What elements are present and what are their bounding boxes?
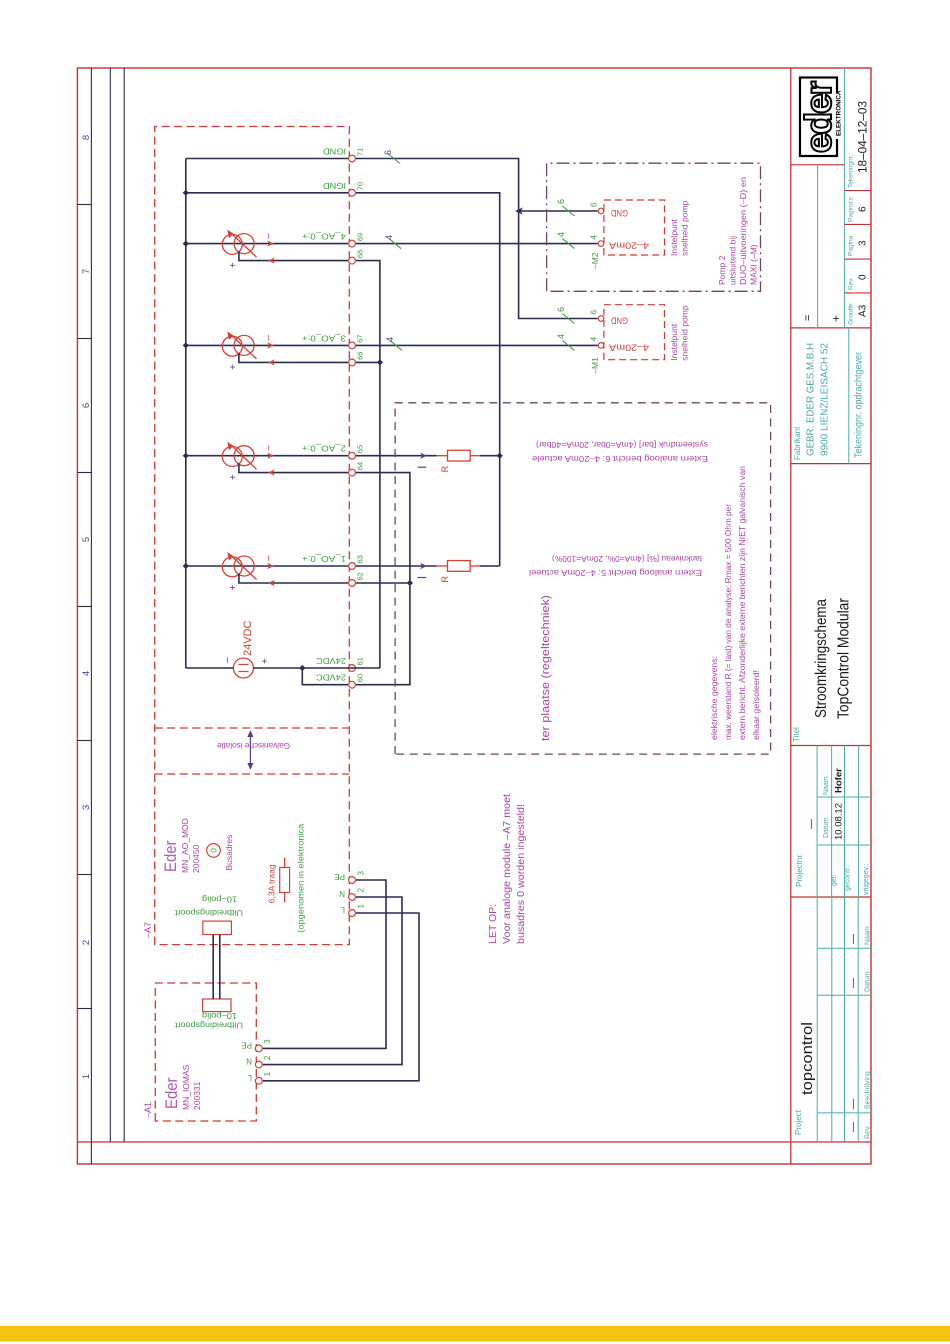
frame column band line	[90, 68, 92, 1164]
svg-text:3: 3	[357, 871, 366, 876]
resistor R1	[436, 565, 448, 567]
wire source minus to IGND bus	[186, 667, 234, 669]
stub -M1 GND	[601, 318, 604, 320]
measuring loop wire with resistor R1	[356, 565, 437, 567]
svg-text:PE: PE	[334, 872, 345, 881]
svg-text:9900 LIENZ/LEISACH 52: 9900 LIENZ/LEISACH 52	[819, 343, 831, 456]
galvanic isolation divider right	[155, 727, 350, 729]
svg-text:Project: Project	[794, 1109, 803, 1135]
svg-text:6: 6	[556, 307, 566, 312]
page-cells top line	[843, 68, 845, 328]
pump connector box -M2	[604, 200, 665, 255]
regeltechniek dashed box	[395, 403, 770, 754]
svg-text:Pomp 2: Pomp 2	[717, 255, 727, 285]
wire PE: -A1:3 to -A7:3	[263, 880, 386, 1048]
svg-text:71: 71	[356, 148, 365, 156]
svg-text:Pagina's: Pagina's	[848, 197, 855, 222]
svg-text:–: –	[263, 445, 274, 451]
frame inner line 1	[109, 68, 111, 1142]
wire gauge slash 71	[388, 154, 400, 164]
svg-text:—: —	[806, 819, 817, 829]
svg-text:Projectnr.: Projectnr.	[795, 853, 804, 887]
svg-text:+: +	[228, 474, 239, 480]
svg-text:systeemdruk [bar] (4mA=0bar, 2: systeemdruk [bar] (4mA=0bar, 20mA=40bar)	[536, 440, 708, 450]
page cell divider x1153.4	[844, 190, 871, 192]
wire bus to terminal 71	[186, 158, 348, 160]
svg-text:4–20mA: 4–20mA	[609, 342, 649, 352]
svg-text:4: 4	[385, 337, 395, 342]
svg-text:Fabrikant: Fabrikant	[793, 426, 802, 460]
junction net A / 66	[377, 359, 383, 365]
svg-text:+: +	[260, 658, 271, 664]
bus junction	[183, 563, 189, 569]
terminal -M1:4 (4-20mA)	[598, 343, 604, 349]
drawing frame outer border	[77, 68, 871, 1164]
terminal -A7:65	[349, 452, 356, 459]
pomp 2 dash-dot box	[547, 163, 761, 291]
controlled current source Q4 (AO channel 4)	[186, 243, 348, 245]
svg-text:GND: GND	[611, 316, 628, 326]
svg-text:PE: PE	[241, 1040, 252, 1049]
svg-text:—: —	[848, 978, 859, 988]
connector X1 on -A7 (uitbreidingspoort)	[203, 921, 232, 934]
wire terminal 66 to net A	[356, 361, 380, 363]
svg-text:10–polig: 10–polig	[202, 895, 237, 904]
svg-text:R: R	[440, 465, 450, 472]
svg-text:gecontr.:: gecontr.:	[845, 864, 852, 891]
svg-text:=: =	[802, 315, 814, 321]
galvanic isolation divider left	[155, 773, 350, 775]
terminal -A1:3 (PE)	[255, 1045, 262, 1052]
svg-text:busadres 0 worden ingesteld!: busadres 0 worden ingesteld!	[515, 804, 527, 944]
svg-text:Pagina: Pagina	[848, 235, 855, 256]
title block divider x598	[791, 745, 871, 747]
svg-text:R: R	[440, 576, 450, 583]
svg-text:24VDC: 24VDC	[316, 656, 346, 666]
fabrikant divider	[848, 328, 850, 464]
svg-text:DUO–uitvoeringen (–D) en: DUO–uitvoeringen (–D) en	[738, 177, 748, 285]
wire L: -A1:1 to -A7:1	[263, 913, 419, 1081]
frame left filing margin line	[77, 1141, 871, 1143]
svg-text:–A1: –A1	[143, 1102, 153, 1118]
svg-text:10–polig: 10–polig	[202, 1011, 237, 1020]
svg-text:Extern analoog bericht 6: 4–20: Extern analoog bericht 6: 4–20mA actuele	[532, 454, 708, 464]
wire bus to terminal 70	[186, 192, 348, 194]
junction 24VDC jumper	[299, 665, 305, 671]
svg-text:extern bericht. Afzonderlijke: extern bericht. Afzonderlijke externe be…	[738, 466, 747, 740]
+24V net B rail (60-62-64)	[356, 473, 410, 685]
IGND bus inside -A7	[185, 159, 187, 669]
wire gauge slash 69	[389, 239, 401, 249]
svg-text:+: +	[228, 262, 239, 268]
wire N: -A1:2 to -A7:2	[263, 897, 402, 1065]
source plus return wire to terminal 66	[239, 353, 348, 363]
wire terminal 62 to net B	[356, 582, 410, 584]
svg-text:LET OP:: LET OP:	[487, 904, 499, 944]
svg-text:0: 0	[858, 274, 869, 280]
title block divider x447	[791, 896, 871, 898]
terminal -M1:6 (GND)	[598, 316, 604, 322]
bus junction	[183, 240, 189, 246]
svg-text:elektrische gegevens:: elektrische gegevens:	[710, 656, 719, 740]
svg-text:2: 2	[357, 888, 366, 893]
svg-text:1: 1	[263, 1071, 272, 1076]
svg-text:65: 65	[356, 445, 365, 453]
svg-text:IGND: IGND	[323, 181, 346, 191]
svg-text:4: 4	[81, 671, 92, 676]
svg-text:4: 4	[556, 334, 566, 339]
24VDC source G1	[233, 658, 253, 678]
terminal -A7:67	[349, 342, 356, 349]
=/+ divider	[817, 165, 819, 328]
svg-text:ELEKTRONICA: ELEKTRONICA	[836, 90, 843, 136]
source plus return wire to terminal 64	[239, 463, 348, 472]
svg-text:TopControl Modular: TopControl Modular	[836, 598, 853, 719]
source minus output wire to terminal 63	[267, 563, 274, 569]
GND branch to -M2	[519, 210, 598, 212]
svg-text:Eder: Eder	[161, 840, 180, 872]
svg-text:A3: A3	[858, 304, 869, 317]
svg-text:–M1: –M1	[590, 357, 600, 374]
page cell divider x1084.9	[844, 258, 871, 260]
svg-text:(opgenomen in elektronica: (opgenomen in elektronica	[296, 823, 306, 932]
terminal -A7:60	[349, 681, 356, 688]
svg-text:Hofer: Hofer	[834, 768, 845, 793]
bus junction	[183, 190, 189, 196]
svg-text:—: —	[848, 1099, 859, 1109]
source minus output wire to terminal 67	[267, 342, 274, 348]
terminal -M2:4 (4-20mA)	[598, 241, 604, 247]
svg-text:Tekeningnr.:: Tekeningnr.:	[848, 153, 855, 188]
svg-text:MN_AO_MOD: MN_AO_MOD	[180, 818, 190, 873]
terminal -A7:69	[349, 240, 356, 247]
svg-text:Extern analoog bericht 5: 4–20: Extern analoog bericht 5: 4–20mA actueel	[529, 568, 702, 578]
svg-text:Naam: Naam	[865, 926, 872, 945]
terminal -A7:71	[349, 155, 356, 162]
svg-text:6: 6	[590, 310, 599, 315]
svg-text:topcontrol: topcontrol	[799, 1022, 816, 1095]
title block top line	[790, 68, 792, 1164]
page cell divider x1119.6	[844, 223, 871, 225]
svg-text:–: –	[263, 334, 274, 340]
title block divider x880	[791, 463, 871, 465]
terminal -A7:1 (L)	[349, 910, 356, 917]
svg-text:0: 0	[210, 848, 219, 853]
svg-text:1: 1	[81, 1074, 92, 1079]
svg-text:66: 66	[356, 352, 365, 360]
svg-text:eder: eder	[798, 81, 839, 153]
svg-text:6,3A traag: 6,3A traag	[267, 864, 277, 903]
svg-text:N: N	[246, 1057, 252, 1066]
source plus return wire to terminal 62	[239, 574, 348, 584]
controlled current source Q2 (AO channel 2)	[186, 455, 348, 457]
svg-text:3: 3	[858, 240, 869, 246]
svg-text:6: 6	[556, 199, 566, 204]
svg-text:uitsluitend bij: uitsluitend bij	[728, 236, 738, 285]
stub -M1 4-20mA	[601, 344, 604, 346]
+24V net A rail (61-66-68)	[356, 261, 380, 668]
svg-text:4: 4	[556, 232, 566, 237]
svg-text:8: 8	[81, 135, 92, 140]
svg-text:MAXI (–M): MAXI (–M)	[749, 244, 759, 285]
frame inner line 2	[123, 68, 125, 1142]
svg-text:63: 63	[356, 555, 365, 563]
terminal -A7:70	[349, 189, 356, 196]
svg-text:200450: 200450	[191, 844, 201, 873]
terminal -A7:63	[349, 563, 356, 570]
svg-text:6: 6	[383, 150, 393, 155]
source plus return wire to terminal 68	[239, 251, 348, 261]
svg-text:+: +	[228, 585, 239, 591]
svg-text:get:: get:	[831, 874, 838, 886]
wire gauge slash 67	[390, 340, 402, 350]
svg-text:snelheid pomp: snelheid pomp	[680, 305, 690, 361]
terminal -A7:61	[349, 665, 356, 672]
connector X1 on -A1 (uitbreidingspoort)	[203, 999, 231, 1012]
svg-text:Uitbreidingspoort: Uitbreidingspoort	[174, 908, 243, 917]
svg-text:Uitbreidingspoort: Uitbreidingspoort	[174, 1021, 243, 1030]
expansion bus cable between -A1 and -A7	[212, 935, 214, 1000]
module -A7 box	[155, 127, 350, 945]
svg-text:6: 6	[81, 403, 92, 408]
terminal -M2:6 (GND)	[598, 208, 604, 214]
svg-text:GND: GND	[611, 208, 628, 218]
terminal -A1:2 (N)	[255, 1061, 262, 1068]
bus junction	[183, 453, 189, 459]
svg-text:GEBR. EDER GES.M.B.H: GEBR. EDER GES.M.B.H	[805, 343, 817, 456]
svg-text:1: 1	[357, 904, 366, 909]
terminal -A7:2 (N)	[349, 894, 356, 901]
svg-text:–: –	[263, 233, 274, 239]
svg-text:ter plaatse (regeltechniek): ter plaatse (regeltechniek)	[540, 595, 552, 741]
svg-text:Grootte: Grootte	[848, 303, 855, 325]
yellow page footer bar	[0, 1326, 950, 1342]
svg-text:18–04–12–03: 18–04–12–03	[856, 101, 870, 173]
eder elektronica logo	[800, 78, 837, 157]
svg-text:Tekeningnr. opdrachtgever: Tekeningnr. opdrachtgever	[854, 351, 865, 458]
GND wire from terminal 71 to pumps	[356, 159, 598, 319]
svg-text:2_AO_0:+: 2_AO_0:+	[302, 444, 346, 454]
svg-text:61: 61	[356, 657, 365, 665]
svg-text:Rev.: Rev.	[865, 1125, 872, 1139]
svg-text:—: —	[848, 934, 859, 944]
svg-text:Busadres: Busadres	[224, 835, 234, 871]
svg-text:67: 67	[356, 335, 365, 343]
svg-text:4: 4	[590, 336, 599, 341]
svg-text:4_AO_0:+: 4_AO_0:+	[302, 232, 346, 242]
svg-text:69: 69	[356, 233, 365, 241]
svg-text:–: –	[222, 657, 233, 663]
stub -M2 GND	[601, 210, 604, 212]
4-20mA wire terminal 69 to -M2	[356, 243, 598, 245]
stub -M2 4-20mA	[601, 243, 604, 245]
source minus output wire to terminal 69	[267, 240, 274, 246]
junction IGND / R2	[497, 453, 503, 459]
svg-text:4–20mA: 4–20mA	[609, 241, 649, 251]
svg-text:Beschrijving: Beschrijving	[865, 1071, 872, 1109]
svg-text:N: N	[339, 889, 345, 898]
svg-text:vrijgegev.:: vrijgegev.:	[863, 864, 870, 895]
svg-text:elkaar geïsoleerd!: elkaar geïsoleerd!	[752, 670, 761, 740]
svg-text:3_AO_0:+: 3_AO_0:+	[302, 333, 346, 343]
svg-text:7: 7	[81, 269, 92, 274]
revision table lines	[816, 897, 818, 1142]
bus junction	[183, 342, 189, 348]
svg-text:2: 2	[81, 940, 92, 945]
svg-text:6: 6	[858, 206, 869, 212]
svg-text:200331: 200331	[192, 1081, 202, 1110]
svg-text:6: 6	[590, 202, 599, 207]
svg-text:L: L	[340, 905, 345, 914]
svg-text:Naam: Naam	[823, 776, 830, 795]
svg-text:Rev.: Rev.	[848, 277, 855, 290]
svg-text:Instelpunt: Instelpunt	[669, 323, 679, 360]
logo cell divider	[791, 164, 845, 166]
svg-text:10.08.12: 10.08.12	[834, 803, 845, 840]
svg-text:4: 4	[590, 235, 599, 240]
svg-text:–: –	[263, 555, 274, 561]
isolation double arrow	[249, 734, 251, 766]
svg-text:tankniveau [%] (4mA=0%, 20mA=1: tankniveau [%] (4mA=0%, 20mA=100%)	[552, 554, 702, 564]
terminal -A7:68	[349, 257, 356, 264]
svg-text:24VDC: 24VDC	[316, 673, 346, 683]
junction net B / 62	[407, 580, 413, 586]
svg-text:Galvanische isolatie: Galvanische isolatie	[217, 741, 290, 751]
svg-text:+: +	[829, 315, 843, 322]
4-20mA wire terminal 67 to -M1	[356, 344, 598, 346]
controlled current source Q1 (AO channel 1)	[186, 565, 348, 567]
terminal -A7:62	[349, 580, 356, 587]
terminal -A7:64	[349, 469, 356, 476]
svg-text:4: 4	[384, 235, 394, 240]
projectnr table lines	[816, 746, 818, 898]
column ticks	[77, 1008, 91, 1010]
svg-text:L: L	[247, 1073, 252, 1082]
svg-text:–M2: –M2	[590, 252, 600, 269]
svg-text:+: +	[228, 364, 239, 370]
svg-text:1_AO_0:+: 1_AO_0:+	[302, 554, 346, 564]
svg-text:64: 64	[356, 462, 365, 470]
terminal -A7:66	[349, 359, 356, 366]
svg-text:3: 3	[81, 805, 92, 810]
source minus output wire to terminal 65	[267, 453, 274, 459]
controlled current source Q3 (AO channel 3)	[186, 344, 348, 346]
svg-text:60: 60	[356, 674, 365, 682]
svg-text:snelheid pomp: snelheid pomp	[680, 200, 690, 256]
svg-text:Voor analoge module –A7 moet: Voor analoge module –A7 moet	[501, 794, 513, 944]
terminal -A1:1 (L)	[255, 1077, 262, 1084]
page cell divider x1051.1	[844, 292, 871, 294]
svg-text:Titel: Titel	[792, 727, 801, 742]
terminal -A7:3 (PE)	[349, 877, 356, 884]
svg-text:5: 5	[81, 537, 92, 542]
mid-run wire marks	[562, 206, 574, 216]
svg-text:68: 68	[356, 250, 365, 258]
svg-text:IGND: IGND	[323, 147, 346, 157]
title block divider x1016	[791, 327, 871, 329]
svg-text:Eder: Eder	[162, 1077, 181, 1109]
svg-text:2: 2	[263, 1055, 272, 1060]
measuring loop wire with resistor R2	[356, 455, 437, 457]
svg-text:3: 3	[263, 1039, 272, 1044]
svg-text:—: —	[848, 1122, 859, 1132]
resistor R2	[436, 455, 448, 457]
svg-text:24VDC: 24VDC	[242, 620, 254, 656]
svg-text:max. weerstand R (= last) van: max. weerstand R (= last) van de analyse…	[724, 504, 733, 740]
wire source plus through terminal 61	[253, 667, 380, 669]
svg-text:Datum: Datum	[865, 971, 872, 992]
svg-text:Stroomkringschema: Stroomkringschema	[813, 599, 830, 718]
svg-text:MN_IOMAS: MN_IOMAS	[181, 1064, 191, 1110]
svg-text:Datum: Datum	[823, 817, 830, 838]
busadres selector circle	[207, 844, 221, 858]
fuse F1 6,3A	[284, 858, 286, 903]
svg-text:70: 70	[356, 182, 365, 190]
svg-text:Instelpunt: Instelpunt	[669, 219, 679, 256]
svg-text:62: 62	[356, 572, 365, 580]
pump connector box -M1	[604, 305, 665, 360]
IGND wire from terminal 70 to resistors	[356, 193, 500, 566]
module -A1 box	[155, 983, 256, 1121]
jumper to terminal 60	[302, 668, 348, 685]
svg-text:–A7: –A7	[143, 922, 153, 938]
